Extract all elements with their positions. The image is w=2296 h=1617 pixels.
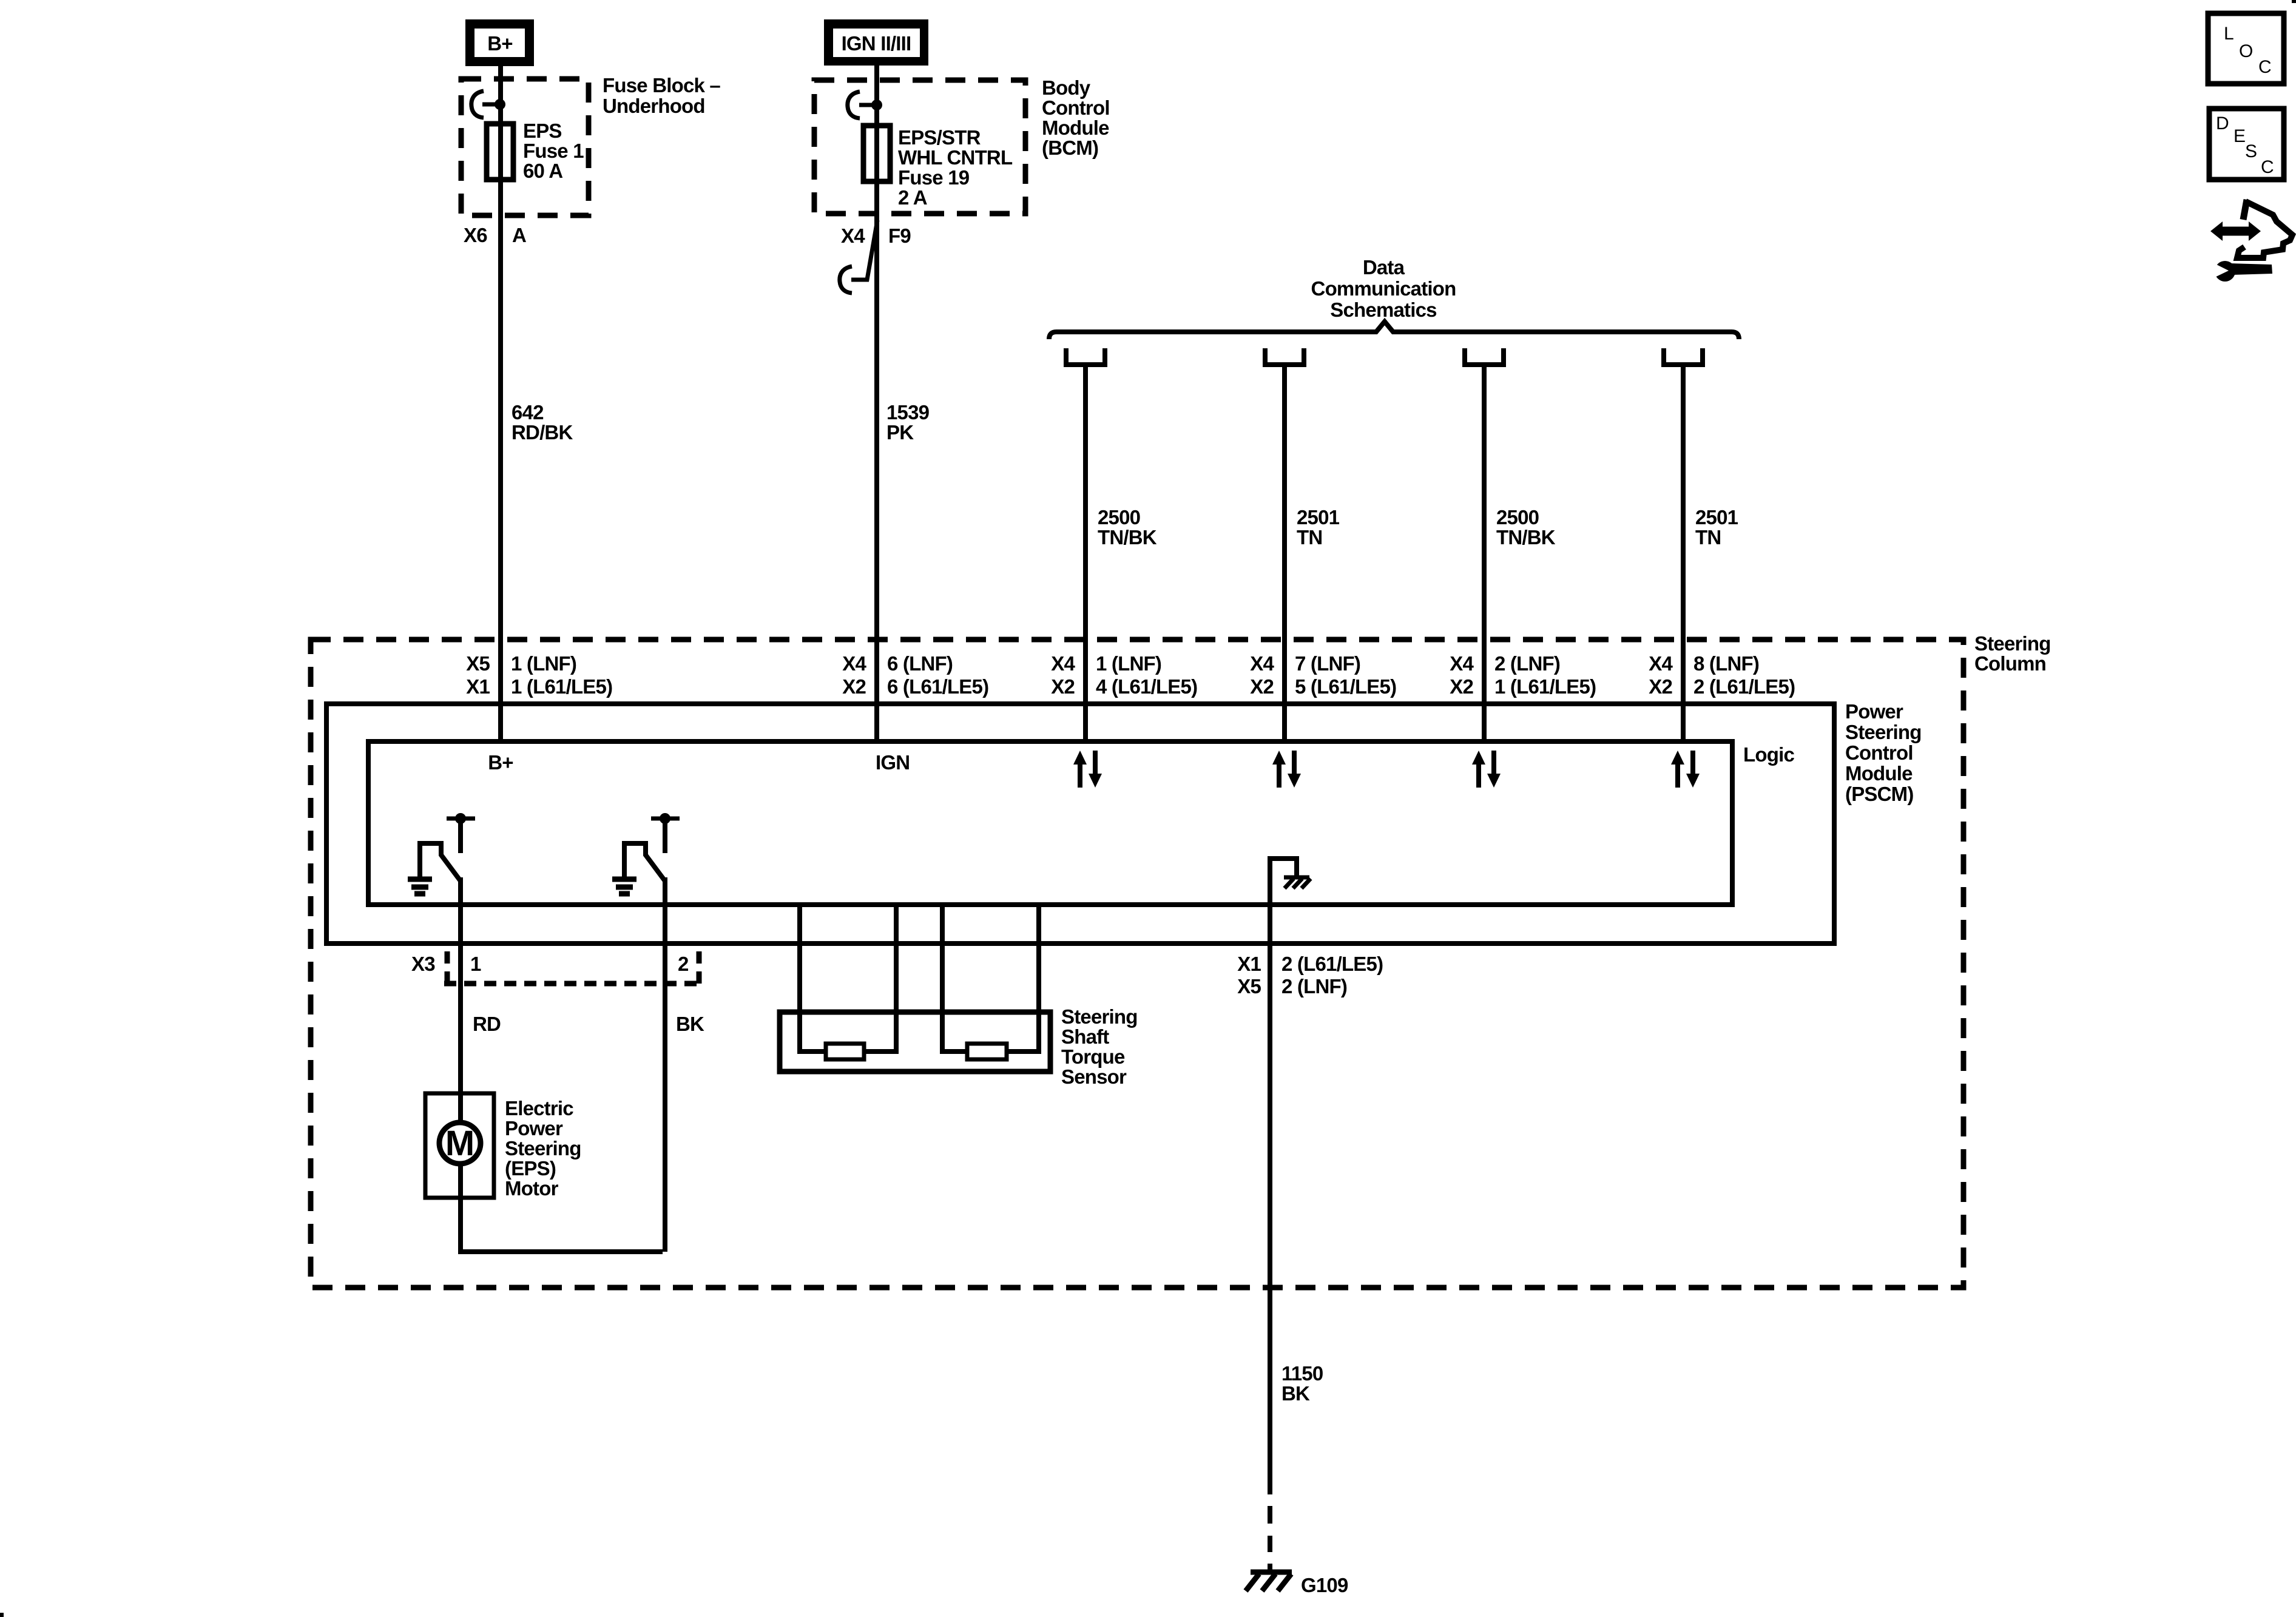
switch blade (driver 1)	[420, 843, 461, 881]
svg-text:BK: BK	[676, 1013, 704, 1035]
svg-text:6 (LNF): 6 (LNF)	[887, 652, 953, 675]
svg-text:Steering: Steering	[1845, 721, 1922, 743]
svg-text:6 (L61/LE5): 6 (L61/LE5)	[887, 675, 988, 698]
svg-text:Fuse Block –: Fuse Block –	[603, 74, 720, 96]
bidirectional data arrows at x=2774	[1675, 762, 1680, 788]
svg-text:Data: Data	[1363, 256, 1405, 279]
svg-text:E: E	[2234, 126, 2246, 146]
fuse block underhood dashed box	[461, 79, 589, 215]
svg-text:642: 642	[512, 401, 544, 424]
stray dot left margin	[0, 1613, 4, 1617]
svg-text:X2: X2	[1450, 675, 1473, 698]
fuse F19 (EPS/STR WHL CNTRL Fuse 19 2 A)	[863, 126, 890, 181]
svg-text:2 A: 2 A	[898, 186, 927, 209]
svg-text:WHL CNTRL: WHL CNTRL	[898, 146, 1013, 169]
svg-text:C: C	[2261, 157, 2274, 177]
svg-text:Control: Control	[1042, 96, 1110, 119]
svg-text:4 (L61/LE5): 4 (L61/LE5)	[1096, 675, 1197, 698]
svg-text:L: L	[2224, 24, 2234, 44]
svg-text:Logic: Logic	[1743, 743, 1794, 766]
svg-text:C: C	[2258, 57, 2272, 77]
svg-text:1 (L61/LE5): 1 (L61/LE5)	[511, 675, 612, 698]
svg-text:1: 1	[470, 953, 481, 975]
svg-text:1 (L61/LE5): 1 (L61/LE5)	[1494, 675, 1596, 698]
ground symbol (driver 2)	[612, 877, 636, 882]
steering column dashed box	[311, 640, 1963, 1288]
svg-text:2 (L61/LE5): 2 (L61/LE5)	[1693, 675, 1795, 698]
svg-text:1150: 1150	[1281, 1362, 1323, 1385]
svg-text:RD: RD	[473, 1013, 501, 1035]
svg-text:PK: PK	[886, 421, 914, 444]
wire motor return loop	[461, 1198, 663, 1252]
svg-text:F9: F9	[888, 224, 911, 247]
svg-text:G109: G109	[1301, 1574, 1348, 1596]
svg-text:Control: Control	[1845, 741, 1913, 764]
fuse F1 (EPS Fuse 1 60 A)	[487, 124, 513, 180]
svg-text:X4: X4	[1051, 652, 1075, 675]
switch contact (driver 1) with junction dot	[447, 817, 475, 821]
svg-text:1 (LNF): 1 (LNF)	[511, 652, 576, 675]
svg-text:X1: X1	[466, 675, 490, 698]
svg-text:(PSCM): (PSCM)	[1845, 783, 1914, 805]
svg-text:Module: Module	[1845, 762, 1913, 785]
svg-text:X6: X6	[464, 224, 487, 246]
svg-text:2 (LNF): 2 (LNF)	[1494, 652, 1560, 675]
svg-text:EPS/STR: EPS/STR	[898, 126, 981, 149]
wire into motor	[458, 1093, 463, 1122]
off-page connector 4 (data bus)	[1664, 348, 1703, 365]
svg-text:2 (LNF): 2 (LNF)	[1281, 975, 1347, 998]
brace to data communication schematics	[1049, 322, 1739, 339]
svg-text:2500: 2500	[1098, 506, 1140, 528]
svg-text:TN/BK: TN/BK	[1098, 526, 1157, 549]
connector terminal curl at fuse 1 feed	[471, 91, 484, 118]
EPS motor box	[425, 1093, 494, 1198]
svg-text:X2: X2	[1649, 675, 1672, 698]
svg-text:Power: Power	[1845, 700, 1903, 723]
power symbol B+	[465, 19, 534, 66]
svg-text:X1: X1	[1237, 953, 1261, 975]
wire torque sensor lead 3	[942, 905, 967, 1052]
svg-text:X2: X2	[842, 675, 866, 698]
svg-text:X4: X4	[1649, 652, 1673, 675]
ground G109	[1251, 1570, 1292, 1575]
svg-text:B+: B+	[487, 32, 513, 55]
svg-text:Torque: Torque	[1061, 1045, 1125, 1068]
svg-text:2501: 2501	[1297, 506, 1340, 528]
wire BK: switch 2 output down to motor return	[663, 877, 667, 1252]
svg-text:Fuse 1: Fuse 1	[523, 140, 584, 162]
ground symbol (driver 1)	[408, 877, 432, 882]
svg-text:Column: Column	[1974, 652, 2046, 675]
svg-text:60 A: 60 A	[523, 160, 562, 182]
svg-text:X4: X4	[842, 652, 866, 675]
svg-text:Schematics: Schematics	[1330, 299, 1436, 321]
off-page connector 2 (data bus)	[1265, 348, 1304, 365]
svg-text:1 (LNF): 1 (LNF)	[1096, 652, 1161, 675]
svg-text:(BCM): (BCM)	[1042, 137, 1098, 159]
wire out of motor	[458, 1164, 463, 1198]
connector X4 terminal symbol below BCM	[851, 220, 877, 280]
dashed wire continuation to G109	[1268, 1506, 1272, 1524]
svg-text:IGN II/III: IGN II/III	[842, 32, 911, 55]
svg-text:S: S	[2245, 141, 2257, 161]
motor circle M	[439, 1122, 481, 1164]
steering shaft torque sensor box	[780, 1012, 1050, 1072]
svg-text:Steering: Steering	[505, 1137, 581, 1160]
svg-text:Communication: Communication	[1311, 277, 1456, 300]
svg-text:Body: Body	[1042, 76, 1091, 99]
junction dot at fuse 1 feed	[495, 99, 505, 110]
switch contact (driver 2) with junction dot	[651, 817, 680, 821]
connector terminal curl at fuse 19 feed	[848, 92, 860, 118]
icon DESC box	[2209, 109, 2284, 180]
svg-text:X4: X4	[1450, 652, 1474, 675]
svg-text:RD/BK: RD/BK	[512, 421, 573, 444]
svg-text:IGN: IGN	[876, 751, 910, 774]
svg-text:BK: BK	[1281, 1382, 1310, 1405]
wire torque sensor lead 4	[1007, 905, 1039, 1052]
bidirectional data arrows at x=1789	[1078, 762, 1082, 788]
svg-text:(EPS): (EPS)	[505, 1157, 556, 1180]
svg-text:X5: X5	[1237, 975, 1261, 998]
wire torque sensor lead 1	[800, 905, 826, 1052]
svg-text:5 (L61/LE5): 5 (L61/LE5)	[1295, 675, 1396, 698]
wire 642 RD/BK from B+ through fuse 1 down to PSCM pin	[498, 66, 503, 741]
svg-text:Electric: Electric	[505, 1097, 573, 1119]
wire RD: switch 1 output down to EPS motor	[458, 877, 463, 1093]
svg-text:X2: X2	[1250, 675, 1274, 698]
wire torque sensor lead 2	[864, 905, 896, 1052]
svg-text:TN: TN	[1695, 526, 1721, 549]
bidirectional data arrows at x=2117	[1277, 762, 1281, 788]
svg-text:X4: X4	[841, 224, 865, 247]
svg-text:2501: 2501	[1695, 506, 1738, 528]
logic box	[368, 741, 1732, 905]
svg-text:Sensor: Sensor	[1061, 1065, 1127, 1088]
chassis ground inside logic box	[1270, 859, 1297, 905]
svg-text:Fuse 19: Fuse 19	[898, 166, 970, 189]
switch blade (driver 2)	[624, 843, 665, 881]
resistor R2 (torque sensor element 2)	[967, 1044, 1007, 1059]
svg-text:M: M	[445, 1124, 474, 1163]
wire 1539 PK from IGN II/III through fuse 19 down to PSCM pin	[874, 66, 879, 741]
wire 1150 BK from PSCM ground pin down to G109	[1268, 905, 1272, 1494]
bidirectional data arrows at x=2446	[1476, 762, 1481, 788]
wire 2501 TN	[1681, 365, 1686, 741]
svg-text:Steering: Steering	[1974, 632, 2051, 655]
svg-text:B+: B+	[488, 751, 513, 774]
svg-text:2 (L61/LE5): 2 (L61/LE5)	[1281, 953, 1383, 975]
icon LOC box	[2208, 13, 2284, 84]
svg-text:Module: Module	[1042, 116, 1109, 139]
off-page connector 1 (data bus)	[1066, 348, 1105, 365]
svg-text:X5: X5	[466, 652, 490, 675]
wire 2500 TN/BK	[1482, 365, 1487, 741]
svg-text:TN: TN	[1297, 526, 1322, 549]
wire 2501 TN	[1282, 365, 1287, 741]
connector X3 dashed outline	[445, 951, 450, 984]
power symbol IGN II/III	[824, 19, 928, 66]
svg-text:Underhood: Underhood	[603, 95, 705, 117]
svg-text:Shaft: Shaft	[1061, 1025, 1109, 1048]
svg-text:7 (LNF): 7 (LNF)	[1295, 652, 1360, 675]
svg-text:X2: X2	[1051, 675, 1075, 698]
svg-text:2500: 2500	[1496, 506, 1539, 528]
svg-text:X4: X4	[1250, 652, 1274, 675]
svg-text:TN/BK: TN/BK	[1496, 526, 1556, 549]
junction dot at fuse 19 feed	[871, 100, 882, 110]
off-page connector 3 (data bus)	[1465, 348, 1504, 365]
svg-text:A: A	[512, 224, 526, 246]
svg-text:EPS: EPS	[523, 120, 562, 142]
svg-text:8 (LNF): 8 (LNF)	[1693, 652, 1759, 675]
svg-text:1539: 1539	[886, 401, 930, 424]
corner tick top right	[2292, 0, 2296, 3]
body control module dashed box	[814, 80, 1025, 214]
icon fold-out arrow and wrench	[2220, 227, 2252, 236]
svg-text:O: O	[2239, 41, 2253, 61]
svg-text:X3: X3	[411, 953, 435, 975]
svg-text:Motor: Motor	[505, 1177, 559, 1200]
svg-text:2: 2	[678, 953, 689, 975]
svg-text:D: D	[2216, 113, 2229, 133]
resistor R1 (torque sensor element 1)	[826, 1044, 864, 1059]
svg-text:Power: Power	[505, 1117, 563, 1139]
wire 2500 TN/BK	[1083, 365, 1088, 741]
svg-text:Steering: Steering	[1061, 1005, 1138, 1028]
PSCM module box	[326, 704, 1834, 944]
